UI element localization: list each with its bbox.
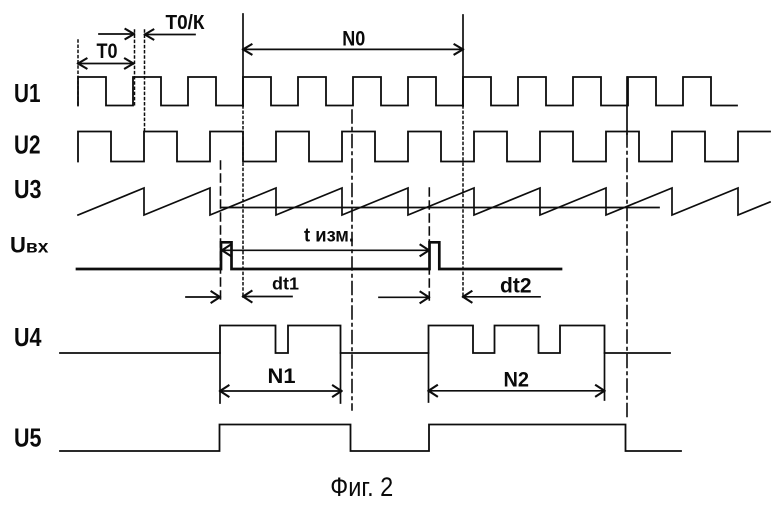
node N0 start line x=243 dotted part [242,106,244,296]
wire U4 edge extension x=428.5 [428,353,430,402]
svg-text:Т0/К: Т0/К [166,12,206,34]
wire U4 edge extension x=340.5 [340,353,342,403]
svg-text:N0: N0 [342,26,365,50]
wire U2 square wave [78,132,770,162]
wire Uvx baseline with pulses [77,242,561,269]
wire U4 edge extension x=220 [219,353,221,403]
node N1 dimension arrow [220,386,342,397]
svg-text:N2: N2 [504,368,530,392]
node U2-edge dotted line x=144.5 [144,30,146,131]
node N0 end line x=463 dotted part [462,106,464,296]
wire U5 gate signal [60,425,681,452]
node N0 start line x=243 solid part [242,14,244,106]
node N0 end line x=463 solid part [462,15,464,106]
svg-text:U1: U1 [14,78,41,108]
wire U4 edge extension x=604.5 [604,353,606,400]
node U1-edge dotted line x=134.5 [134,30,136,105]
svg-text:U2: U2 [14,130,41,160]
wire U3 threshold level line [221,207,659,209]
node T0/K left arrow [99,29,134,39]
svg-text:dt1: dt1 [272,274,299,294]
node T0/K right arrow [145,30,195,40]
svg-text:Фиг. 2: Фиг. 2 [330,472,393,502]
node T0 left boundary dotted line x=78 [77,40,79,106]
svg-text:U4: U4 [14,322,42,352]
node dt1 left arrow [186,292,220,303]
node t_izm dimension arrow [222,245,429,256]
node input pulse 2 dashed line x=429.3 [428,188,430,300]
wire U1 square wave [78,77,737,106]
node dt1 right arrow [243,291,292,302]
node right reference line x=627 solid part [626,77,628,134]
wire U3 sawtooth [78,188,770,215]
svg-text:dt2: dt2 [500,274,532,297]
node center dash-dot line x=352 [351,110,353,410]
node right reference line x=627 dash-dot part [626,134,628,420]
svg-text:Uвх: Uвх [10,232,49,257]
node T0 dimension arrow [78,59,134,69]
node N0 dimension arrow [243,44,463,54]
svg-text:U5: U5 [14,422,42,452]
svg-text:N1: N1 [268,364,296,388]
svg-text:U3: U3 [14,174,42,204]
wire U4 gated pulses [60,326,670,354]
svg-text:Т0: Т0 [97,39,118,63]
node dt2 right arrow [463,291,540,302]
node N2 dimension arrow [429,385,605,396]
node dt2 left arrow [379,292,429,303]
svg-text:t изм.: t изм. [304,225,354,247]
node input pulse 1 dashed line x=220.5 [220,161,222,300]
